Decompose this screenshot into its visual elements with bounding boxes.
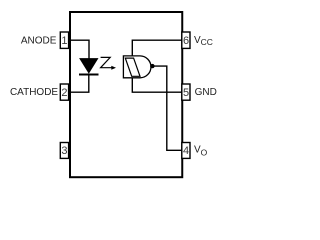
pin 5 box: [182, 84, 190, 100]
svg-text:5: 5: [183, 87, 189, 99]
detector gate U1b outline: [123, 56, 151, 78]
pin 2 box: [60, 84, 68, 100]
wire pin1 to LED anode: [69, 40, 90, 58]
svg-text:3: 3: [61, 145, 67, 157]
pin 4 box: [182, 143, 190, 159]
light arrowhead: [111, 66, 116, 70]
wire Vcc to detector top: [132, 40, 181, 56]
photodiode chip parallelogram: [125, 58, 140, 76]
pin 1 box: [60, 32, 68, 48]
svg-text:ANODE: ANODE: [21, 35, 57, 46]
svg-text:2: 2: [61, 87, 67, 99]
svg-text:VO: VO: [194, 145, 208, 158]
light emission arrow: [101, 57, 112, 67]
LED D1 cathode bar: [79, 74, 99, 76]
LED D1 triangle: [80, 59, 98, 73]
wire output to pin4: [152, 66, 181, 150]
svg-text:GND: GND: [195, 87, 217, 98]
svg-text:6: 6: [183, 35, 189, 47]
wire LED cathode to pin2: [69, 75, 89, 93]
output junction dot: [150, 64, 154, 68]
svg-text:4: 4: [183, 145, 189, 157]
pin 6 box: [182, 32, 190, 48]
wire detector bottom to GND pin5: [132, 78, 181, 92]
svg-text:CATHODE: CATHODE: [10, 87, 58, 98]
IC package outline U1: [70, 12, 182, 177]
svg-text:1: 1: [61, 35, 67, 47]
pin 3 box: [60, 143, 68, 159]
svg-text:VCC: VCC: [194, 35, 213, 47]
